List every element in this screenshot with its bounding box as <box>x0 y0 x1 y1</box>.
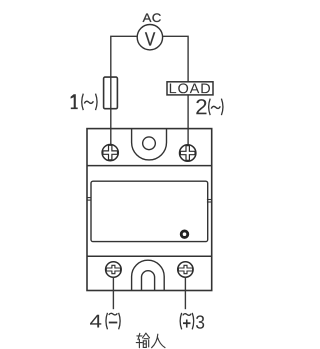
terminal 4 label 4(~-) <box>90 313 120 330</box>
left side notch <box>87 198 91 201</box>
right side notch <box>207 200 211 203</box>
SSR top flange divider <box>87 165 212 167</box>
SSR bottom flange divider <box>87 255 212 257</box>
label AC <box>143 13 161 22</box>
terminal 2 label 2(~) <box>196 99 223 116</box>
front panel <box>91 181 208 241</box>
bottom cable slot outer arch <box>132 260 165 290</box>
terminal screw 4 <box>106 262 122 278</box>
wire: terminal 4 lead <box>112 277 114 309</box>
voltmeter V1 <box>137 25 162 50</box>
caption 输入 (input) <box>136 333 165 348</box>
terminal 3 label (~+)3 <box>180 313 204 330</box>
输 left radical <box>137 335 142 337</box>
terminal screw 1 <box>102 145 118 161</box>
mounting hole <box>143 137 156 150</box>
terminal screw 3 <box>178 262 193 277</box>
输 right part body <box>142 341 144 348</box>
terminal 1 label 1(~) <box>71 94 97 111</box>
bottom cable slot inner arch <box>142 271 155 291</box>
wire: voltmeter left arm down through fuse to terminal 1 <box>111 36 137 144</box>
terminal screw 2 <box>180 145 196 161</box>
load box LOAD <box>167 82 213 95</box>
wire: terminal 3 lead <box>184 277 186 309</box>
wire: voltmeter right arm down through load to terminal 2 <box>163 36 189 144</box>
入 <box>152 334 158 348</box>
SSR body outline <box>87 129 212 291</box>
输 right part roof <box>143 333 146 338</box>
LED indicator <box>181 231 188 238</box>
fuse F1 <box>104 77 118 109</box>
mounting tab <box>132 129 167 160</box>
